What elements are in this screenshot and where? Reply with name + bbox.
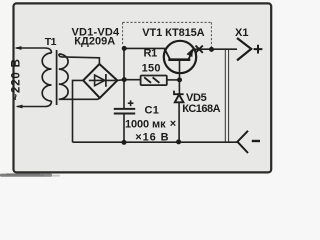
svg-text:X1: X1 bbox=[235, 27, 249, 39]
bridge rectifier VD1-VD4 diamond bbox=[83, 64, 117, 98]
node: bridge plus junction bbox=[122, 77, 127, 82]
svg-text:×: × bbox=[170, 118, 176, 130]
capacitor C1 plates bbox=[114, 109, 135, 114]
node: emitter wire junction bbox=[209, 47, 214, 52]
svg-text:×16 В: ×16 В bbox=[135, 131, 169, 143]
bottom rail wire bbox=[73, 141, 238, 143]
resistor R1 right lead bbox=[167, 79, 180, 81]
bridge inner diode axis bbox=[89, 79, 116, 81]
svg-text:~220 В: ~220 В bbox=[11, 58, 23, 100]
svg-text:1000 мк: 1000 мк bbox=[125, 119, 166, 131]
input terminal arrow (bottom, ~220V) bbox=[16, 101, 52, 108]
scan smudge below frame bbox=[0, 173, 60, 177]
bridge inner diode cathode bar bbox=[105, 74, 107, 87]
figure frame bbox=[14, 3, 272, 172]
svg-text:Т1: Т1 bbox=[45, 36, 57, 48]
resistor R1 left lead bbox=[124, 79, 141, 81]
zener VD5 triangle bbox=[175, 95, 184, 103]
connector X1 minus pin arrow bbox=[237, 131, 248, 153]
node: base junction bbox=[177, 77, 182, 82]
transistor VT1 collector diagonal bbox=[164, 49, 170, 60]
svg-text:150: 150 bbox=[142, 62, 161, 74]
wire bbox=[16, 48, 52, 53]
transistor VT1 circle bbox=[164, 41, 196, 73]
plus sign at X1 bbox=[254, 45, 263, 54]
input terminal arrow (top, ~220V) bbox=[15, 46, 52, 53]
svg-text:R1: R1 bbox=[144, 48, 158, 60]
svg-text:VT1 КТ815А: VT1 КТ815А bbox=[142, 27, 204, 39]
transistor VT1 emitter diagonal bbox=[188, 49, 193, 60]
wire secondary bottom to bridge bottom vertex bbox=[59, 98, 100, 100]
callout dashed box around VT1 label bbox=[123, 22, 212, 47]
connector X1 double line bbox=[225, 50, 228, 142]
zener VD5 cathode bar with tail bbox=[174, 91, 184, 95]
transistor VT1 base bar bbox=[168, 58, 190, 61]
svg-text:С1: С1 bbox=[145, 105, 160, 117]
bridge inner diode triangle bbox=[95, 75, 105, 86]
wire bridge plus stub bbox=[117, 79, 124, 82]
node: C1 to rail bbox=[122, 140, 127, 145]
svg-text:КС168А: КС168А bbox=[182, 103, 220, 115]
transformer T1 secondary winding bbox=[59, 54, 68, 99]
resistor R1 power marks bbox=[144, 77, 159, 83]
node: zener to rail bbox=[176, 139, 181, 144]
wire bridge minus (left vertex) down to bottom rail bbox=[73, 80, 84, 142]
capacitor C1 plus sign bbox=[128, 100, 134, 106]
minus sign at X1 bbox=[252, 140, 260, 142]
wire secondary top to bridge top vertex bbox=[59, 54, 100, 64]
transistor VT1 emitter arrow bbox=[187, 48, 194, 57]
svg-text:КД209А: КД209А bbox=[74, 36, 115, 48]
wire bbox=[17, 101, 52, 107]
wire C1 bottom to rail bbox=[123, 114, 125, 143]
node: collector junction bbox=[122, 46, 127, 51]
transformer T1 primary winding bbox=[42, 53, 51, 101]
zener VD5 leads bbox=[178, 80, 180, 142]
transistor VT1 base lead bbox=[179, 61, 181, 80]
svg-text:VD5: VD5 bbox=[186, 92, 207, 104]
transformer core bbox=[56, 50, 58, 105]
collector wire bbox=[124, 47, 165, 49]
plus vertical wire bbox=[123, 48, 125, 109]
connector X1 plus pin arrow bbox=[237, 38, 251, 60]
resistor R1 body bbox=[141, 76, 167, 86]
emitter wire to X1 bbox=[193, 48, 237, 50]
X mark on emitter wire bbox=[196, 46, 203, 53]
